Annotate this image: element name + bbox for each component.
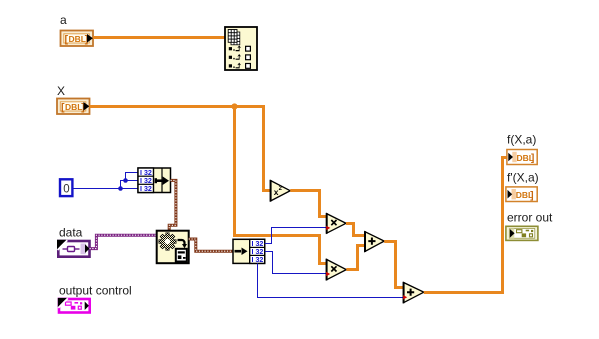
- x squared node: [271, 180, 291, 202]
- svg-text:output control: output control: [59, 284, 132, 298]
- svg-text:I 32: I 32: [140, 169, 152, 177]
- wire add1 to add2: [384, 242, 403, 288]
- I32 wires constant 0 to bundle: [72, 173, 138, 189]
- svg-text:f(X,a): f(X,a): [507, 133, 536, 147]
- subVI node (gear icon): [157, 231, 189, 264]
- Index Array node: [225, 27, 257, 70]
- indicator error out: [506, 226, 538, 240]
- control a [DBL] array control: [61, 31, 94, 47]
- Index Array index terminals (3 rows): [229, 45, 251, 68]
- junction dot on X wire: [231, 103, 237, 109]
- svg-text:I 32: I 32: [140, 185, 152, 193]
- add node 2: [403, 282, 424, 303]
- svg-text:DBL: DBL: [69, 34, 86, 44]
- multiply node 1: [326, 213, 346, 234]
- svg-text:I 32: I 32: [252, 240, 264, 248]
- svg-text:0: 0: [63, 184, 69, 196]
- svg-text:DBL: DBL: [65, 102, 82, 112]
- add node 1: [365, 231, 384, 252]
- cluster wire subVI to unbundle: [189, 239, 233, 251]
- control output control (cluster): [58, 298, 90, 313]
- wire a to Index Array: [93, 36, 225, 39]
- I32 wire unbundle top to multiply1: [265, 228, 327, 244]
- svg-text:]: ]: [530, 190, 533, 201]
- wire multiply2 to add1: [346, 246, 365, 270]
- wire multiply1 to add1: [346, 224, 365, 236]
- svg-text:f'(X,a): f'(X,a): [507, 171, 539, 185]
- indicator f(X,a): [507, 150, 537, 165]
- I32 wire unbundle middle to multiply2: [265, 252, 327, 274]
- X wire branch down to multiply 2: [235, 107, 327, 264]
- wire add2 to indicator f(X,a): [424, 158, 507, 293]
- indicator f'(X,a): [506, 187, 537, 202]
- svg-text:data: data: [59, 226, 83, 240]
- class wire data to subVI: [90, 235, 158, 248]
- svg-text:I 32: I 32: [252, 248, 264, 256]
- constant 0: [60, 179, 72, 196]
- unbundle node: [233, 239, 265, 264]
- svg-text:X: X: [57, 84, 65, 98]
- svg-text:I 32: I 32: [140, 177, 152, 185]
- junction dots on I32 wire: [118, 186, 123, 191]
- X wire main run: [89, 107, 270, 191]
- I32 wire unbundle bottom to add2: [258, 263, 404, 297]
- svg-text:error out: error out: [507, 211, 553, 225]
- svg-text:I 32: I 32: [252, 256, 264, 264]
- multiply node 2: [326, 259, 346, 280]
- svg-text:]: ]: [531, 153, 534, 164]
- svg-text:a: a: [60, 13, 67, 27]
- control X [DBL] array control: [57, 99, 90, 115]
- bundle node: [138, 168, 171, 193]
- control data (class control): [57, 240, 90, 257]
- wire x squared to multiply1: [290, 191, 326, 217]
- cluster wire bundle to subVI: [169, 180, 176, 231]
